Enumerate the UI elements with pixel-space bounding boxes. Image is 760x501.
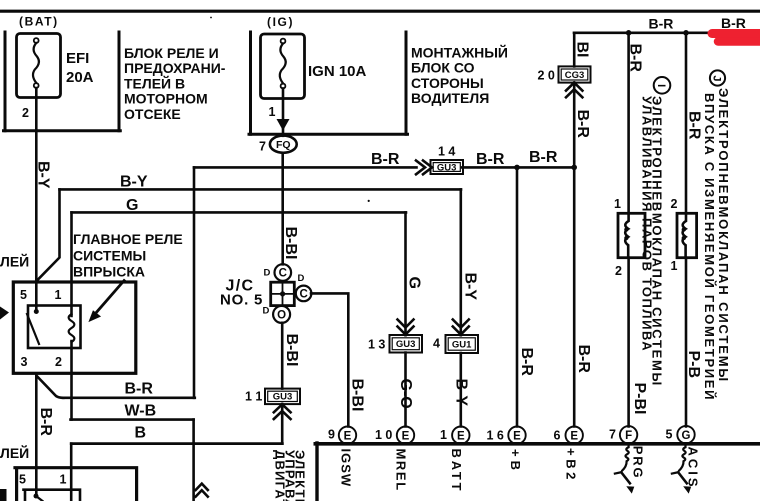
svg-text:D: D <box>298 273 305 284</box>
svg-text:B-R: B-R <box>125 381 154 398</box>
svg-text:IGSW: IGSW <box>339 449 354 488</box>
svg-text:W-B: W-B <box>125 403 157 420</box>
svg-text:B-Y: B-Y <box>35 161 52 189</box>
svg-text:1: 1 <box>269 105 276 119</box>
svg-text:1: 1 <box>671 259 678 273</box>
svg-text:5: 5 <box>666 428 673 442</box>
svg-text:+B: +B <box>508 449 523 474</box>
svg-text:B-R: B-R <box>529 149 558 166</box>
svg-text:+B2: +B2 <box>564 448 579 483</box>
svg-text:1: 1 <box>60 473 67 487</box>
svg-text:B-R: B-R <box>649 15 674 31</box>
svg-text:ЭЛЕКТРОПНЕВМОКЛАПАН СИСТЕМЫ: ЭЛЕКТРОПНЕВМОКЛАПАН СИСТЕМЫ <box>716 88 731 383</box>
svg-text:B-BI: B-BI <box>282 227 299 260</box>
svg-text:УЛАВЛИВАНИЯ ПАРОВ ТОПЛИВА: УЛАВЛИВАНИЯ ПАРОВ ТОПЛИВА <box>640 96 655 352</box>
svg-text:9: 9 <box>328 428 335 442</box>
svg-text:1: 1 <box>614 197 621 211</box>
svg-text:G: G <box>682 430 691 442</box>
svg-text:20A: 20A <box>66 69 94 86</box>
svg-text:2: 2 <box>22 106 29 120</box>
svg-text:B-Y: B-Y <box>453 379 470 407</box>
svg-text:1 0: 1 0 <box>375 428 392 442</box>
svg-text:FQ: FQ <box>276 139 291 151</box>
svg-text:1 1: 1 1 <box>245 390 262 404</box>
svg-text:1 6: 1 6 <box>487 429 504 443</box>
svg-text:5: 5 <box>19 473 26 487</box>
svg-text:B-R: B-R <box>574 110 591 139</box>
svg-text:B-R: B-R <box>627 44 644 73</box>
svg-text:EFI: EFI <box>66 50 89 67</box>
svg-text:4: 4 <box>433 337 440 351</box>
svg-text:BI: BI <box>574 42 591 58</box>
svg-text:E: E <box>402 430 410 442</box>
svg-text:МОТОРНОМ: МОТОРНОМ <box>124 91 208 107</box>
svg-text:6: 6 <box>554 429 561 443</box>
svg-text:B-BI: B-BI <box>349 379 366 412</box>
svg-text:5: 5 <box>20 288 27 302</box>
svg-text:G: G <box>406 277 423 289</box>
svg-text:B-R: B-R <box>37 408 54 437</box>
svg-text:P-B: P-B <box>685 351 702 379</box>
svg-text:3: 3 <box>21 355 28 369</box>
svg-text:C: C <box>279 268 287 280</box>
svg-text:7: 7 <box>259 140 266 154</box>
svg-text:2: 2 <box>615 264 622 278</box>
svg-text:1 4: 1 4 <box>438 145 455 159</box>
svg-text:ПРЕДОХРАНИ-: ПРЕДОХРАНИ- <box>124 60 226 76</box>
svg-text:E: E <box>457 430 465 442</box>
svg-text:J: J <box>711 75 723 81</box>
svg-text:O: O <box>277 310 286 322</box>
svg-text:CG3: CG3 <box>565 70 585 81</box>
svg-text:GU3: GU3 <box>273 392 293 403</box>
svg-text:G: G <box>126 197 138 214</box>
svg-text:СТОРОНЫ: СТОРОНЫ <box>411 75 484 91</box>
svg-text:B: B <box>135 425 147 442</box>
svg-text:2: 2 <box>55 355 62 369</box>
svg-text:(BAT): (BAT) <box>19 15 59 29</box>
svg-text:B-R: B-R <box>371 151 400 168</box>
svg-text:G-O: G-O <box>397 379 414 409</box>
svg-text:(IG): (IG) <box>267 15 294 29</box>
svg-text:2: 2 <box>671 197 678 211</box>
svg-text:ЛЕЙ: ЛЕЙ <box>0 444 29 461</box>
svg-text:C: C <box>299 289 307 301</box>
svg-text:GU1: GU1 <box>452 339 472 350</box>
svg-text:1: 1 <box>55 288 62 302</box>
svg-text:1 3: 1 3 <box>368 338 385 352</box>
svg-text:СИСТЕМЫ: СИСТЕМЫ <box>73 247 146 263</box>
svg-text:F: F <box>625 430 632 442</box>
svg-text:IGN 10A: IGN 10A <box>308 63 367 80</box>
svg-text:BATT: BATT <box>449 449 464 494</box>
svg-text:D: D <box>264 268 271 279</box>
svg-text:1: 1 <box>440 428 447 442</box>
svg-text:ГЛАВНОЕ РЕЛЕ: ГЛАВНОЕ РЕЛЕ <box>73 231 183 247</box>
svg-text:ВОДИТЕЛЯ: ВОДИТЕЛЯ <box>411 90 489 106</box>
svg-text:E: E <box>344 430 352 442</box>
svg-text:GU3: GU3 <box>437 162 457 173</box>
svg-text:ОТСЕКЕ: ОТСЕКЕ <box>124 106 181 122</box>
svg-text:ВПРЫСКА: ВПРЫСКА <box>73 264 145 280</box>
svg-text:2 0: 2 0 <box>538 69 555 83</box>
svg-text:E: E <box>513 430 521 442</box>
svg-text:NO. 5: NO. 5 <box>220 292 263 309</box>
svg-text:MREL: MREL <box>394 449 409 492</box>
svg-text:7: 7 <box>609 428 616 442</box>
svg-text:P-BI: P-BI <box>631 383 648 415</box>
svg-text:ВПУСКА С ИЗМЕНЯЕМОЙ ГЕОМЕТРИЕЙ: ВПУСКА С ИЗМЕНЯЕМОЙ ГЕОМЕТРИЕЙ <box>702 93 717 401</box>
svg-text:D: D <box>263 306 270 317</box>
svg-text:B-Y: B-Y <box>120 174 148 191</box>
svg-text:B-Y: B-Y <box>462 273 479 301</box>
svg-text:ДВИГАТ: ДВИГАТ <box>273 450 288 501</box>
svg-text:B-BI: B-BI <box>283 334 300 367</box>
svg-text:B-R: B-R <box>575 345 592 374</box>
svg-text:БЛОК СО: БЛОК СО <box>411 60 475 76</box>
svg-text:МОНТАЖНЫЙ: МОНТАЖНЫЙ <box>411 44 508 61</box>
svg-text:ТЕЛЕЙ В: ТЕЛЕЙ В <box>124 74 185 91</box>
svg-text:I: I <box>655 84 667 87</box>
svg-text:E: E <box>570 430 578 442</box>
svg-text:PRG: PRG <box>631 446 646 480</box>
svg-text:ЛЕЙ: ЛЕЙ <box>0 253 29 270</box>
svg-text:B-R: B-R <box>686 111 703 140</box>
svg-text:ACIS: ACIS <box>686 447 701 490</box>
svg-text:GU3: GU3 <box>396 339 416 350</box>
svg-text:B-R: B-R <box>721 15 746 31</box>
svg-text:B-R: B-R <box>518 348 535 377</box>
svg-text:B-R: B-R <box>476 151 505 168</box>
svg-text:БЛОК РЕЛЕ И: БЛОК РЕЛЕ И <box>124 45 219 61</box>
